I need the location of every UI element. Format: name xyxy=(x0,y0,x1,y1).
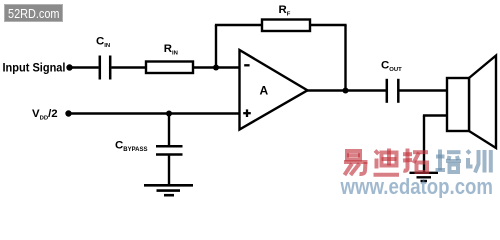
wire R_IN to op-amp inverting input xyxy=(193,66,240,68)
capacitor C_OUT xyxy=(381,60,402,103)
watermark 52RD.com box xyxy=(5,5,63,22)
wire feedback top right segment xyxy=(310,24,347,26)
wire C_BYPASS to ground xyxy=(168,155,170,186)
wire C_OUT to speaker xyxy=(399,89,448,91)
capacitor C_IN xyxy=(96,35,110,79)
capacitor C_BYPASS xyxy=(115,139,183,154)
svg-text:52RD.com: 52RD.com xyxy=(8,7,60,21)
node Vdd/2 dot xyxy=(65,110,71,116)
watermark chinese char 拓 (red) xyxy=(403,149,428,173)
node input dot xyxy=(66,64,72,70)
watermark chinese char 培 (blue) xyxy=(436,150,462,173)
ground speaker xyxy=(410,173,439,181)
wire Vdd/2 to op-amp non-inverting input xyxy=(69,112,241,114)
ground main xyxy=(144,185,193,195)
wire feedback vertical up xyxy=(215,25,217,68)
wire speaker return horizontal xyxy=(423,114,447,116)
watermark chinese char 易 (red) xyxy=(344,151,368,175)
wire input node to C_IN xyxy=(70,66,99,68)
svg-text:Input Signal: Input Signal xyxy=(3,62,66,74)
wire speaker return vertical xyxy=(423,116,425,173)
speaker LS1 xyxy=(447,56,496,149)
junction node output xyxy=(343,88,349,94)
junction node bypass tap xyxy=(166,111,172,117)
wire down to C_BYPASS xyxy=(168,114,170,147)
wire C_IN to R_IN xyxy=(112,66,147,68)
watermark chinese char 迪 (red) xyxy=(374,149,400,175)
op-amp U1 triangle xyxy=(240,50,308,130)
watermark chinese char 训 (blue) xyxy=(467,150,491,173)
svg-text:A: A xyxy=(260,84,269,98)
wire feedback top left segment xyxy=(215,24,262,26)
wire op-amp output to C_OUT xyxy=(307,89,386,91)
junction node feedback tap xyxy=(213,65,219,71)
svg-text:www.edatop.com: www.edatop.com xyxy=(340,174,493,198)
resistor R_IN xyxy=(146,43,193,73)
resistor R_F xyxy=(262,4,310,31)
wire feedback vertical down to output xyxy=(344,25,346,91)
